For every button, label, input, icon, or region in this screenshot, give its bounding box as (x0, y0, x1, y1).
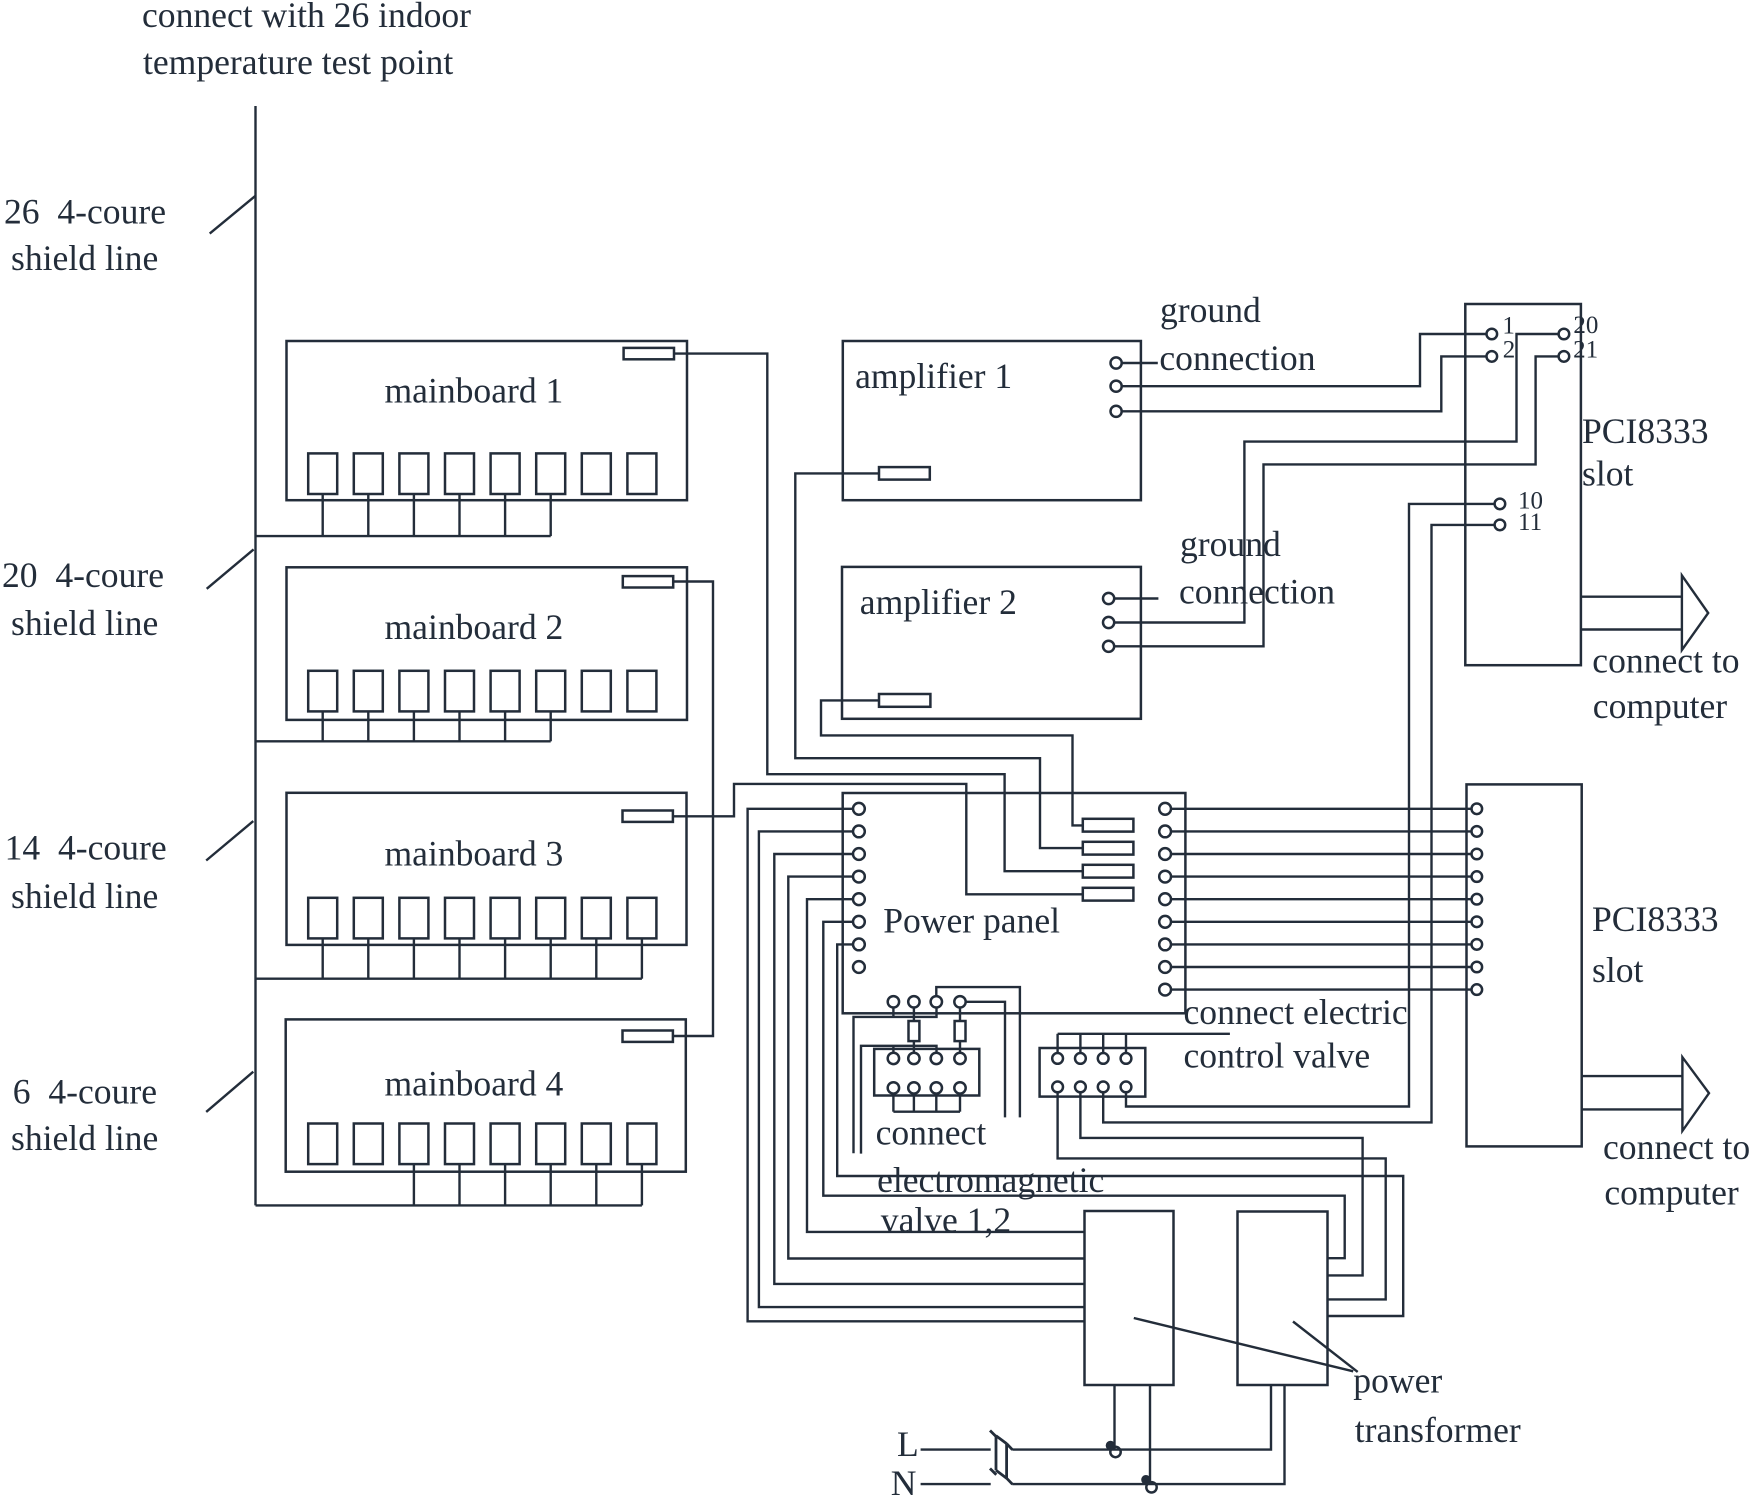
mainboard 4 pin 8 (627, 1124, 656, 1165)
svg-text:PCI8333: PCI8333 (1592, 899, 1719, 939)
power panel box (843, 793, 1186, 1013)
power panel left circle 8 (853, 961, 865, 973)
control block bottom circle 2 (1075, 1082, 1086, 1093)
slash mark 14 4-coure (206, 821, 253, 860)
arrow connect to computer 2 (1582, 1075, 1683, 1077)
wire valve block bottom stub 3 (935, 1094, 937, 1112)
mainboard 1 pin 8 (627, 453, 656, 494)
wire transformer 1 bottom to N (1149, 1385, 1151, 1484)
mainboard 2 pin 5 (491, 671, 520, 712)
svg-text:mainboard 1: mainboard 1 (385, 370, 564, 410)
wire amplifier 1 c3 to PCI1 pin 2 (1122, 356, 1487, 411)
power panel right circle 4 (1159, 871, 1171, 883)
mainboard 1 pin 7 (582, 453, 611, 494)
pointer line to transformer 1 (1134, 1318, 1353, 1371)
wire amplifier 2 connector to power panel rect 1 (821, 700, 1083, 825)
electromagnetic valve terminal block (874, 1049, 979, 1096)
wire mainboard 3 pin 4 stub (458, 938, 460, 978)
mainboard 4 pin 7 (582, 1124, 611, 1165)
PCI2 pin circle 6 (1472, 917, 1483, 928)
svg-text:connection: connection (1179, 572, 1335, 612)
wire mainboard 2 pin 4 stub (458, 711, 460, 741)
wire mainboard 3 pin 6 stub (550, 938, 552, 978)
wire mainboard 2 pin 5 stub (504, 711, 506, 741)
wire resistor R2 to valve block c4 (959, 1041, 961, 1053)
wire mainboard 4 pin 3 stub (413, 1164, 415, 1205)
svg-text:20: 20 (1573, 312, 1598, 339)
PCI2 pin circle 3 (1472, 849, 1483, 860)
wire resistor R1 to valve block c2 (913, 1041, 915, 1053)
svg-text:2: 2 (1503, 337, 1516, 364)
wire PCI1 pin 10 to control valve block c4 (1126, 504, 1495, 1107)
wire control block top stub 4 (1125, 1034, 1127, 1053)
svg-text:connection: connection (1159, 338, 1315, 378)
amplifier 2 terminal circle 2 (1103, 617, 1114, 628)
svg-text:computer: computer (1593, 686, 1728, 726)
power panel right circle 1 (1159, 803, 1171, 815)
wire mainboard 2 pin 3 stub (413, 711, 415, 741)
svg-text:computer: computer (1604, 1172, 1739, 1212)
PCI1 pin 2 circle (1487, 351, 1498, 362)
PCI2 pin circle 5 (1472, 894, 1483, 905)
wire valve block bottom stub 1 (892, 1094, 894, 1112)
wire panel right 3 to PCI2 pin 3 (1171, 853, 1472, 855)
mainboard 2 pin 7 (582, 671, 611, 712)
PCI1 pin 1 circle (1487, 329, 1498, 340)
mainboard 3 pin 1 (308, 898, 337, 939)
power panel left circle 5 (853, 893, 865, 905)
svg-text:amplifier 2: amplifier 2 (860, 582, 1017, 622)
wire panel bottom c4 right dead-end (966, 1002, 1005, 1118)
control block bottom circle 3 (1098, 1082, 1109, 1093)
wire control block top stub 2 (1079, 1034, 1081, 1053)
wire amplifier 1 c2 to PCI1 pin 1 (1122, 334, 1487, 386)
wire panel left c6 to transformer 2 in 1 (823, 922, 1344, 1258)
mainboard 2 pin 2 (354, 671, 383, 712)
mainboard 4 pin 4 (445, 1124, 474, 1165)
wire panel left c4 to transformer 1 in 2 (788, 877, 1084, 1259)
wire mainboard 2 bus to shield line (256, 740, 551, 742)
svg-text:Power panel: Power panel (883, 900, 1060, 940)
mainboard 1 pin 6 (536, 453, 565, 494)
wire panel left c7 to transformer 2 in 4 (837, 944, 1403, 1316)
wire panel bottom c4 to resistor R2 (959, 1008, 961, 1022)
amplifier 1 terminal circle 3 (1111, 406, 1122, 417)
svg-text:shield line: shield line (11, 238, 158, 278)
valve block top circle 3 (931, 1053, 942, 1064)
valve block bottom circle 2 (908, 1082, 919, 1093)
svg-text:20 4-coure: 20 4-coure (2, 555, 164, 595)
wire panel left c5 to transformer 1 in 1 (807, 899, 1085, 1232)
wire panel right 6 to PCI2 pin 6 (1171, 921, 1472, 923)
wire panel right 5 to PCI2 pin 5 (1171, 898, 1472, 900)
wire panel right 7 to PCI2 pin 7 (1171, 943, 1472, 945)
wire panel right 9 to PCI2 pin 9 (1171, 988, 1472, 990)
wire mainboard 3 pin 2 stub (367, 938, 369, 978)
power panel right circle 3 (1159, 848, 1171, 860)
wire mainboard 1 pin 1 stub (322, 494, 324, 536)
mainboard 2 pin 3 (399, 671, 428, 712)
svg-text:electromagnetic: electromagnetic (877, 1160, 1104, 1200)
power panel right circle 2 (1159, 826, 1171, 838)
junction dot L (1106, 1441, 1115, 1450)
wire PCI1 pin 11 to control valve block c3 (1103, 525, 1494, 1123)
svg-text:11: 11 (1518, 509, 1542, 536)
power panel left circle 2 (853, 826, 865, 838)
wire mainboard 1 bus to shield line (256, 535, 551, 537)
wire main 26-core shield line (vertical bus) (254, 106, 256, 1205)
mainboard 3 pin 7 (582, 898, 611, 939)
power panel right circle 6 (1159, 916, 1171, 928)
power panel bottom circle 1 (888, 996, 899, 1007)
mainboard 1 pin 3 (399, 453, 428, 494)
mainboard 3 box (287, 793, 687, 945)
power panel left circle 4 (853, 871, 865, 883)
wire mainboard 2 pin 2 stub (367, 711, 369, 741)
amplifier 2 terminal circle 1 (1103, 593, 1114, 604)
terminal circle N (1146, 1482, 1156, 1492)
wire N input (921, 1483, 991, 1485)
resistor R1 (909, 1021, 920, 1041)
terminal circle L (1110, 1447, 1120, 1457)
mainboard 1 pin 4 (445, 453, 474, 494)
svg-text:connect to: connect to (1603, 1127, 1750, 1167)
wire amplifier 1 connector to power panel rect 2 (795, 473, 1083, 848)
power panel right circle 7 (1159, 939, 1171, 951)
svg-text:PCI8333: PCI8333 (1582, 411, 1709, 451)
mainboard 2 connector (623, 576, 673, 587)
power panel left circle 3 (853, 848, 865, 860)
power panel bottom circle 4 (954, 996, 965, 1007)
power panel connector rect 3 (1083, 865, 1134, 878)
svg-text:26 4-coure: 26 4-coure (4, 192, 166, 232)
amplifier 2 terminal circle 3 (1103, 641, 1114, 652)
wire amplifier 2 c2 to PCI1 pin 20 (1114, 334, 1558, 623)
mainboard 1 box (287, 341, 688, 500)
PCI2 pin circle 8 (1472, 962, 1483, 973)
svg-text:amplifier 1: amplifier 1 (855, 356, 1012, 396)
wire panel right 1 to PCI2 pin 1 (1171, 808, 1472, 810)
wire mainboard 4 pin 4 stub (458, 1164, 460, 1205)
power panel right circle 9 (1159, 984, 1171, 996)
mainboard 2 pin 8 (627, 671, 656, 712)
valve block bottom circle 1 (888, 1082, 899, 1093)
mainboard 4 pin 3 (399, 1124, 428, 1165)
power transformer T2 box (1238, 1212, 1328, 1386)
PCI2 pin circle 1 (1472, 804, 1483, 815)
svg-text:transformer: transformer (1355, 1410, 1521, 1450)
wire mainboard 1 pin 6 stub (550, 494, 552, 536)
wire valve block c1 up stub (892, 1046, 894, 1053)
mainboard 1 connector (624, 348, 674, 359)
svg-text:mainboard 2: mainboard 2 (385, 607, 564, 647)
PCI2 pin circle 4 (1472, 871, 1483, 882)
control block bottom circle 4 (1121, 1082, 1132, 1093)
svg-text:L: L (897, 1424, 919, 1464)
slash mark 20 4-coure (207, 549, 254, 588)
mainboard 4 pin 2 (354, 1124, 383, 1165)
valve block bottom circle 4 (954, 1082, 965, 1093)
wire mainboard 4 bus to shield line (256, 1204, 642, 1206)
svg-text:mainboard 3: mainboard 3 (385, 834, 564, 874)
amplifier 1 connector (879, 467, 930, 480)
PCI1 pin 11 circle (1495, 520, 1506, 531)
svg-text:N: N (891, 1463, 917, 1497)
mainboard 3 pin 3 (399, 898, 428, 939)
amplifier U2 box (842, 567, 1141, 719)
wire mainboard 3 pin 8 stub (641, 938, 643, 978)
mainboard 2 box (287, 567, 688, 720)
slash mark 6 4-coure (206, 1072, 253, 1112)
svg-text:shield line: shield line (11, 603, 158, 643)
wire panel bottom c1 stub (892, 1008, 894, 1017)
wire mainboard 4 pin 7 stub (595, 1164, 597, 1205)
amplifier U1 box (843, 341, 1141, 500)
mainboard 3 pin 8 (627, 898, 656, 939)
svg-text:slot: slot (1582, 454, 1634, 494)
valve block top circle 2 (908, 1053, 919, 1064)
power panel connector rect 4 (1083, 888, 1134, 901)
power panel right circle 5 (1159, 893, 1171, 905)
power panel connector rect 2 (1083, 842, 1134, 855)
svg-text:ground: ground (1160, 290, 1261, 330)
control block top circle 4 (1121, 1053, 1132, 1064)
wire valve block bottom stub 4 (959, 1094, 961, 1112)
wire mainboard 3 pin 7 stub (595, 938, 597, 978)
wire mainboard 2 connector to mainboard 4 connector (672, 582, 713, 1037)
wire panel bottom c3/c1 bus with dead-end drop (854, 1008, 937, 1154)
mainboard 1 pin 2 (354, 453, 383, 494)
control block bottom circle 1 (1052, 1082, 1063, 1093)
mainboard 3 pin 2 (354, 898, 383, 939)
resistor R2 (955, 1021, 966, 1041)
mainboard 3 connector (623, 811, 673, 822)
power panel bottom circle 2 (908, 996, 919, 1007)
mainboard 4 pin 5 (491, 1124, 520, 1165)
wire mainboard 4 pin 5 stub (504, 1164, 506, 1205)
mainboard 1 pin 1 (308, 453, 337, 494)
valve block top circle 4 (954, 1053, 965, 1064)
wire panel right 2 to PCI2 pin 2 (1171, 830, 1472, 832)
svg-text:control valve: control valve (1184, 1036, 1371, 1076)
wire panel left c1 to transformer 1 in 5 (748, 809, 1085, 1322)
wire control block top bus (1058, 1033, 1230, 1035)
PCI1 pin 10 circle (1495, 499, 1506, 510)
wire panel left c3 to transformer 1 in 3 (774, 854, 1084, 1284)
slash mark 26 4-coure (210, 196, 256, 234)
wire panel right 8 to PCI2 pin 8 (1171, 966, 1472, 968)
wire panel bottom c3 up-over dead-end (936, 987, 1020, 1117)
PCI8333 slot 2 box (1467, 784, 1582, 1146)
wire mainboard 4 pin 6 stub (550, 1164, 552, 1205)
amplifier 1 terminal circle 1 (1111, 357, 1122, 368)
wire mainboard 3 pin 5 stub (504, 938, 506, 978)
wire valve block bottom stub 2 (913, 1094, 915, 1112)
svg-text:connect to: connect to (1592, 641, 1739, 681)
power panel left circle 6 (853, 916, 865, 928)
wire L input (921, 1448, 991, 1450)
valve block top circle 1 (888, 1053, 899, 1064)
PCI8333 slot 1 box (1465, 304, 1581, 665)
control block top circle 2 (1075, 1053, 1086, 1064)
mainboard 2 pin 6 (536, 671, 565, 712)
wire N to transformer 2 bottom 2 (1012, 1385, 1284, 1484)
power panel left circle 7 (853, 939, 865, 951)
wire L to transformer 2 bottom 1 (1012, 1385, 1271, 1450)
wire mainboard 2 pin 6 stub (550, 711, 552, 741)
switch SW (double pole) (990, 1431, 1013, 1485)
wire panel right 4 to PCI2 pin 4 (1171, 875, 1472, 877)
wire mainboard 3 pin 1 stub (322, 938, 324, 978)
svg-text:mainboard 4: mainboard 4 (385, 1063, 564, 1103)
wire control block top stub 1 (1056, 1034, 1058, 1053)
wire mainboard 1 pin 5 stub (504, 494, 506, 536)
valve block bottom circle 3 (931, 1082, 942, 1093)
power panel left circle 1 (853, 803, 865, 815)
svg-text:temperature test point: temperature test point (143, 42, 453, 82)
wire mainboard 3 connector to power panel rect 4 (674, 784, 1083, 894)
amplifier 1 terminal circle 2 (1111, 381, 1122, 392)
mainboard 4 box (286, 1019, 686, 1171)
wire transformer 1 bottom to L (1113, 1385, 1115, 1450)
svg-text:6 4-coure: 6 4-coure (13, 1071, 157, 1111)
wire mainboard 1 pin 3 stub (413, 494, 415, 536)
control block top circle 1 (1052, 1053, 1063, 1064)
power panel right circle 8 (1159, 961, 1171, 973)
svg-text:valve 1,2: valve 1,2 (881, 1200, 1011, 1240)
junction dot N (1142, 1476, 1151, 1485)
mainboard 3 pin 4 (445, 898, 474, 939)
wire amplifier 2 ground stub (1114, 597, 1158, 599)
wire panel bottom c2 to resistor R1 (913, 1008, 915, 1022)
wire mainboard 4 pin 8 stub (641, 1164, 643, 1205)
mainboard 3 pin 6 (536, 898, 565, 939)
svg-text:21: 21 (1573, 336, 1598, 363)
wire mainboard 2 pin 1 stub (322, 711, 324, 741)
svg-text:ground: ground (1180, 524, 1281, 564)
wire valve block c3 left dead-end drop (861, 1046, 937, 1154)
electric control valve terminal block (1040, 1048, 1146, 1097)
wire amplifier 2 c3 to PCI1 pin 21 (1114, 356, 1558, 646)
mainboard 4 pin 1 (308, 1124, 337, 1165)
svg-text:14 4-coure: 14 4-coure (5, 828, 167, 868)
power transformer T1 box (1085, 1211, 1174, 1385)
svg-text:connect: connect (876, 1113, 987, 1153)
mainboard 1 pin 5 (491, 453, 520, 494)
svg-text:shield line: shield line (11, 1118, 158, 1158)
PCI2 pin circle 2 (1472, 826, 1483, 837)
control block top circle 3 (1098, 1053, 1109, 1064)
svg-text:slot: slot (1592, 950, 1644, 990)
svg-text:connect electric: connect electric (1184, 992, 1408, 1032)
wire mainboard 3 pin 3 stub (413, 938, 415, 978)
mainboard 4 connector (623, 1031, 673, 1042)
svg-text:1: 1 (1502, 312, 1515, 339)
mainboard 2 pin 1 (308, 671, 337, 712)
power panel bottom circle 3 (931, 996, 942, 1007)
wire control block c2 to transformer 2 in 2 (1080, 1092, 1362, 1275)
PCI1 pin 21 circle (1559, 351, 1570, 362)
wire mainboard 1 pin 2 stub (367, 494, 369, 536)
wire valve block bottom bus (893, 1110, 960, 1112)
arrow connect to computer 1 (1581, 596, 1682, 598)
svg-text:connect with 26 indoor: connect with 26 indoor (142, 0, 471, 35)
svg-text:shield line: shield line (11, 876, 158, 916)
wire mainboard 3 bus to shield line (256, 978, 642, 980)
PCI1 pin 20 circle (1559, 329, 1570, 340)
mainboard 4 pin 6 (536, 1124, 565, 1165)
wire amplifier 1 ground stub (1122, 362, 1158, 364)
wire mainboard 1 pin 4 stub (458, 494, 460, 536)
PCI2 pin circle 9 (1472, 984, 1483, 995)
wire mainboard 1 connector to power panel rect 3 (674, 354, 1083, 872)
pointer line to transformer 2 (1293, 1322, 1358, 1372)
PCI2 pin circle 7 (1472, 939, 1483, 950)
wire control block c1 to transformer 2 in 3 (1058, 1092, 1386, 1299)
svg-text:power: power (1353, 1360, 1442, 1400)
wire control block top stub 3 (1102, 1034, 1104, 1053)
wire panel left c2 to transformer 1 in 4 (759, 831, 1085, 1307)
amplifier 2 connector (879, 694, 930, 707)
mainboard 3 pin 5 (491, 898, 520, 939)
power panel connector rect 1 (1083, 819, 1134, 832)
mainboard 2 pin 4 (445, 671, 474, 712)
